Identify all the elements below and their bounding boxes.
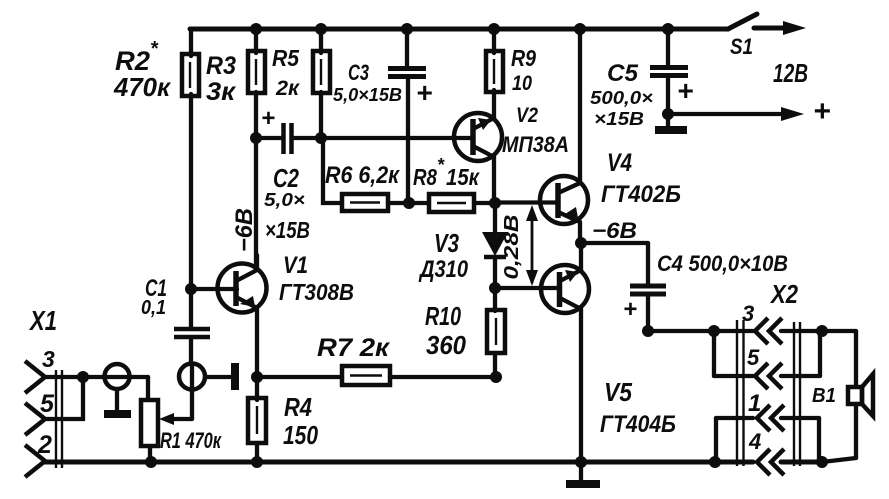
svg-text:5: 5 [40, 390, 55, 418]
svg-text:R10: R10 [425, 301, 461, 331]
node junction X2 pin3 left [708, 325, 720, 337]
svg-text:МП38А: МП38А [502, 132, 569, 157]
potentiometer R1 [141, 400, 158, 446]
wire minus rail with arrow [668, 112, 783, 116]
svg-text:−6В: −6В [231, 208, 258, 252]
wire V5 base [495, 286, 560, 290]
svg-text:R1 470к: R1 470к [160, 428, 222, 453]
X1 contact pin5 [25, 403, 45, 435]
svg-text:ГТ402Б: ГТ402Б [601, 181, 681, 208]
svg-text:ГТ404Б: ГТ404Б [600, 411, 676, 438]
svg-text:×15В: ×15В [594, 109, 644, 129]
X2 jumper 1-4 right [817, 418, 821, 462]
transistor V5 [541, 265, 589, 313]
X2 pin5 row [714, 374, 753, 378]
capacitor C1 [189, 289, 193, 327]
svg-text:5,0×: 5,0× [264, 190, 306, 210]
svg-text:+: + [261, 105, 275, 132]
ground under C5 [666, 114, 670, 127]
node junction V3 / R10 / V5 base [489, 282, 501, 294]
capacitor C3 [405, 29, 409, 67]
wire R2 branch vertical [189, 29, 193, 56]
wire R1 top lead [146, 377, 150, 400]
svg-text:500,0×: 500,0× [590, 88, 654, 108]
diode V3 [493, 203, 497, 234]
svg-text:5: 5 [747, 345, 760, 370]
wire V1 base [191, 287, 237, 291]
X2 contact pin4 [757, 449, 770, 475]
svg-text:V4: V4 [607, 149, 632, 177]
svg-text:*: * [437, 155, 445, 175]
svg-text:*: * [150, 38, 159, 60]
svg-text:+: + [677, 75, 693, 106]
wire V4 emitter to bus [578, 29, 582, 182]
svg-text:X2: X2 [769, 279, 798, 309]
node junction C4 / X2 pin3 [642, 325, 654, 337]
wire R10 [493, 288, 497, 311]
node junction X2 pin3 right / speaker [816, 325, 828, 337]
X1 contact pin2 [25, 445, 45, 477]
node junction R1 / bottom bus [145, 456, 157, 468]
svg-text:2к: 2к [275, 77, 300, 100]
node junction V5 collector / bottom bus / ground [575, 456, 587, 468]
node junction V1 collector / C2 [250, 132, 262, 144]
X1 pin3 wire [44, 375, 148, 379]
node junction R6 / R8 / C3 [403, 197, 415, 209]
svg-text:+: + [623, 296, 637, 323]
svg-text:R3: R3 [206, 52, 236, 80]
node junction X2 pin4 right / speaker [816, 456, 828, 468]
node junction X1 pin3 / pin5 [77, 371, 89, 383]
svg-text:150: 150 [283, 420, 318, 450]
resistor R4 [248, 398, 266, 443]
svg-text:×15В: ×15В [265, 217, 310, 243]
svg-text:15к: 15к [446, 164, 480, 190]
input jack circle 2 [179, 364, 205, 390]
node junction C2 / R6 / V2 base [315, 132, 327, 144]
resistor R3 [248, 51, 265, 93]
svg-text:С3: С3 [348, 60, 369, 85]
node junction R8 / V2 collector / V3 [489, 197, 501, 209]
svg-text:−6В: −6В [592, 218, 637, 243]
speaker B1 [854, 331, 858, 387]
svg-text:5,0×15В: 5,0×15В [333, 85, 402, 105]
X2 contact pin3 [755, 318, 768, 344]
plug pin bar [206, 375, 232, 379]
wire V4 base [495, 200, 558, 204]
capacitor C2 [281, 123, 286, 154]
svg-text:0,1: 0,1 [141, 297, 166, 319]
X1 pin5 jumper [44, 377, 83, 419]
wire R4 [255, 377, 259, 400]
transistor V2 [454, 113, 502, 161]
svg-text:V1: V1 [283, 252, 308, 279]
node junction top bus / R3 [250, 23, 262, 35]
svg-text:R5: R5 [272, 45, 300, 71]
X2 jumper 3-5 left [712, 331, 716, 376]
svg-text:470к: 470к [113, 72, 172, 102]
svg-text:10: 10 [512, 72, 532, 95]
svg-text:R6 6,2к: R6 6,2к [325, 162, 401, 189]
wire R6 branch [321, 138, 342, 203]
capacitor C5 [666, 29, 670, 66]
wire output to X2 pin3 [648, 329, 753, 333]
node junction top bus / V4 collector [574, 23, 586, 35]
transistor V4 [540, 176, 588, 224]
svg-text:12В: 12В [773, 58, 808, 88]
svg-text:С4 500,0×10В: С4 500,0×10В [657, 251, 788, 276]
svg-text:3: 3 [742, 301, 754, 326]
svg-text:С5: С5 [607, 60, 639, 87]
svg-text:1: 1 [748, 390, 761, 417]
svg-text:С2: С2 [273, 163, 299, 193]
capacitor C4 [646, 243, 650, 283]
svg-text:+: + [813, 95, 831, 128]
node junction X2 pin4 left [709, 456, 721, 468]
wire top supply bus [190, 27, 728, 32]
svg-text:360: 360 [426, 330, 466, 360]
ground input [115, 389, 119, 411]
resistor R2 [182, 54, 199, 96]
X2 jumper 3-5 right [818, 331, 822, 376]
node junction top bus / R5 [315, 23, 327, 35]
switch S1 [728, 14, 757, 29]
svg-text:4: 4 [748, 429, 761, 454]
node junction top bus / R9 [488, 23, 500, 35]
bottom bus [44, 460, 753, 465]
X2 jumper 1-4 left [714, 418, 718, 462]
resistor R8 [429, 194, 474, 212]
X2 pin1 row [716, 416, 753, 420]
resistor R10 [487, 310, 505, 353]
node junction top bus / C5 [662, 23, 674, 35]
annotation 0,28V with arrows [531, 211, 534, 283]
svg-text:3: 3 [42, 346, 55, 372]
wire R9 branch vertical [492, 29, 496, 53]
svg-text:X1: X1 [28, 305, 57, 336]
wire R7 row [257, 375, 342, 379]
node junction C5 / +12V rail / ground [662, 108, 674, 120]
svg-text:V2: V2 [516, 104, 538, 127]
svg-text:R4: R4 [284, 392, 312, 422]
node junction R7 / R10 [490, 371, 502, 383]
input jack circle 1 [105, 364, 130, 389]
wire R3 branch vertical [254, 29, 258, 53]
node junction top bus / C3 [401, 23, 413, 35]
resistor R7 [342, 366, 390, 385]
svg-text:V5: V5 [604, 377, 632, 407]
svg-text:2: 2 [37, 431, 52, 459]
svg-text:Д310: Д310 [418, 256, 468, 283]
X1 contact pin3 [25, 361, 45, 393]
svg-text:R7 2к: R7 2к [317, 334, 390, 362]
svg-text:R8: R8 [413, 164, 437, 190]
svg-text:R9: R9 [511, 45, 536, 71]
svg-text:3к: 3к [206, 78, 236, 106]
node junction R4 / bottom bus [251, 456, 263, 468]
node junction R2 / C1 / V1 base [185, 283, 197, 295]
resistor R9 [486, 51, 503, 92]
resistor R6 [342, 194, 388, 211]
svg-text:+: + [416, 77, 432, 108]
ground bottom [579, 462, 583, 481]
wire R5 branch vertical [319, 29, 323, 53]
svg-text:V3: V3 [434, 228, 459, 258]
connector X2 rails [736, 320, 738, 466]
wire coupling line y138 [256, 136, 282, 140]
resistor R5 [313, 51, 330, 93]
svg-text:0,28В: 0,28В [501, 215, 523, 280]
svg-text:S1: S1 [730, 34, 753, 59]
node junction V4-V5 output node [575, 237, 587, 249]
node junction V1 emitter / R4 / R7 [251, 371, 263, 383]
transistor V1 [218, 264, 267, 313]
svg-text:В1: В1 [812, 385, 836, 407]
svg-text:ГТ308В: ГТ308В [279, 279, 354, 305]
